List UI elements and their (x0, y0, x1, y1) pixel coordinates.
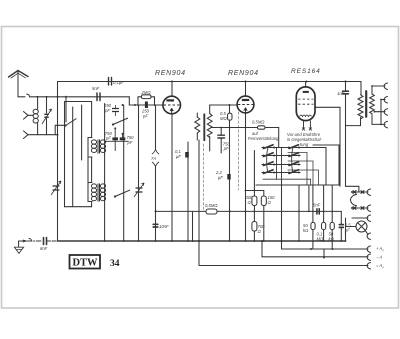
svg-text:MΩ: MΩ (317, 237, 324, 242)
svg-text:pF: pF (142, 114, 148, 119)
svg-text:5nF: 5nF (92, 86, 100, 91)
svg-text:kΩ: kΩ (303, 228, 309, 233)
svg-text:REN904: REN904 (228, 70, 259, 77)
svg-text:pF: pF (223, 146, 229, 151)
svg-text:0,5MΩ: 0,5MΩ (205, 203, 218, 208)
svg-text:pF: pF (104, 108, 110, 113)
svg-text:kΩ: kΩ (329, 237, 335, 242)
svg-text:DTW: DTW (72, 258, 98, 269)
svg-text:REN904: REN904 (155, 70, 186, 77)
svg-text:8nF: 8nF (40, 246, 48, 251)
svg-text:tung: tung (300, 142, 309, 147)
svg-text:34: 34 (110, 259, 120, 269)
svg-text:− A: − A (376, 255, 382, 260)
svg-text:0,1µF: 0,1µF (113, 80, 124, 85)
svg-text:0,5MΩ: 0,5MΩ (252, 120, 265, 125)
svg-text:5nF: 5nF (313, 203, 321, 208)
svg-text:µF: µF (218, 175, 223, 180)
svg-text:pF: pF (105, 136, 111, 141)
svg-text:Fernverstärkung: Fernverstärkung (248, 136, 279, 141)
svg-text:2MΩ: 2MΩ (141, 90, 152, 95)
svg-text:MΩ: MΩ (220, 116, 227, 121)
svg-text:7A: 7A (151, 156, 156, 161)
svg-text:µF: µF (176, 154, 181, 159)
svg-text:10nF: 10nF (159, 224, 169, 229)
svg-text:RES164: RES164 (291, 68, 321, 75)
svg-text:pF: pF (127, 140, 133, 145)
svg-text:1nF: 1nF (337, 91, 345, 96)
svg-text:µF: µF (345, 228, 350, 233)
